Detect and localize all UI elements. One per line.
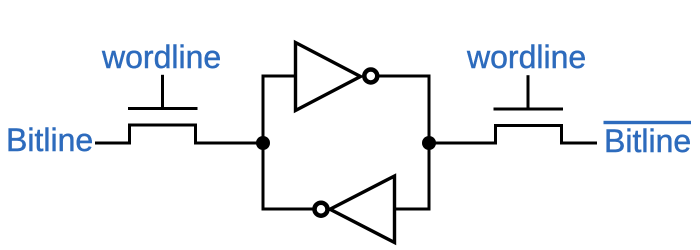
transistor M1 gate lead <box>161 75 164 109</box>
wire transistor M1 to node A <box>195 142 263 145</box>
inverter U1 triangle (top, pointing right) <box>296 43 361 111</box>
svg-text:wordline: wordline <box>101 39 221 75</box>
transistor M2 channel (right access NMOS) <box>496 126 562 145</box>
inverter U2 output bubble <box>315 203 328 216</box>
transistor M1 gate bar <box>128 107 198 110</box>
inverter U1 output bubble <box>364 70 377 83</box>
wire node B to transistor M2 <box>429 142 496 145</box>
wire left rail (node A vertical) <box>262 76 265 209</box>
svg-text:Bitline: Bitline <box>6 122 93 158</box>
svg-text:Bitline: Bitline <box>604 123 691 159</box>
wire transistor M2 to bitline-bar label <box>561 142 597 145</box>
inverter U2 triangle (bottom, pointing left) <box>330 176 395 243</box>
node Bitline-bar overline <box>604 121 692 124</box>
node A junction dot <box>256 136 270 150</box>
transistor M2 gate bar <box>494 108 564 111</box>
wire U1 output to node B rail <box>378 75 431 78</box>
wire bitline-left to pass transistor <box>95 142 130 145</box>
wire node A to inverter U1 input <box>262 75 296 78</box>
wire right rail (node B vertical) <box>428 76 431 209</box>
svg-text:wordline: wordline <box>466 39 586 75</box>
wire U2 output to node A rail <box>262 208 313 211</box>
transistor M2 gate lead <box>527 75 530 109</box>
transistor M1 channel (left access NMOS) <box>130 125 196 145</box>
node B junction dot <box>422 136 436 150</box>
wire node B rail to inverter U2 input <box>395 208 431 211</box>
